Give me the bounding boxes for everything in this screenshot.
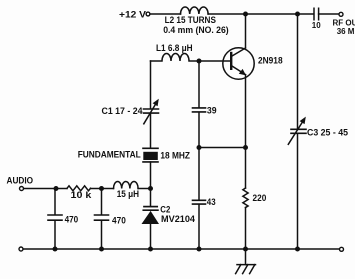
terminal bottom right xyxy=(340,247,344,251)
svg-text:39: 39 xyxy=(207,104,217,115)
svg-text:C3 25 - 45: C3 25 - 45 xyxy=(307,127,348,138)
svg-text:470: 470 xyxy=(112,215,126,226)
wire emitter down xyxy=(245,75,247,188)
wire L1 left down to C1 xyxy=(150,61,152,108)
node bottom R220/ground xyxy=(243,247,248,252)
node base/L1 junction xyxy=(197,59,202,64)
wire collector to top rail xyxy=(245,14,247,48)
wire top rail: +12V terminal to L2 xyxy=(150,13,180,15)
node bottom 470-1 xyxy=(53,247,58,252)
wire 15uH to crystal node xyxy=(138,188,150,190)
crystal Y1 FUNDAMENTAL 18 MHZ xyxy=(143,148,158,162)
svg-text:10: 10 xyxy=(312,21,321,30)
node bottom C2 xyxy=(148,247,153,252)
node link right xyxy=(243,145,248,150)
resistor 220 xyxy=(243,188,248,208)
svg-text:AUDIO: AUDIO xyxy=(7,174,34,185)
wire top rail: L2 to output cap xyxy=(208,13,313,15)
resistor 10 k xyxy=(67,186,91,191)
wire C3 branch from top rail xyxy=(297,14,299,128)
svg-text:470: 470 xyxy=(65,214,79,225)
capacitor C3 variable xyxy=(288,117,306,145)
varactor C2 MV2104 xyxy=(142,189,160,250)
inductor L2 xyxy=(181,7,209,14)
terminal +12V input xyxy=(146,12,150,16)
node collector/rail junction xyxy=(243,12,248,17)
svg-text:18 MHZ: 18 MHZ xyxy=(160,150,190,161)
node crystal/C2/15uH junction xyxy=(148,186,153,191)
node C3/rail junction xyxy=(295,12,300,17)
wire R10k to L 15uH xyxy=(91,188,114,190)
inductor L1 xyxy=(151,54,200,61)
wire base xyxy=(199,60,230,62)
inductor 15 uH xyxy=(114,182,139,189)
terminal RF OUT xyxy=(339,12,343,16)
node 470-2 junction xyxy=(99,186,104,191)
wire C1 to crystal xyxy=(150,114,152,148)
svg-text:220: 220 xyxy=(253,192,267,203)
node bottom C3 xyxy=(295,247,300,252)
svg-text:L1 6.8 μH: L1 6.8 μH xyxy=(156,42,193,53)
wire C39 to emitter link xyxy=(198,113,200,148)
wire link between branches xyxy=(199,147,246,149)
wire base node down to C 39 xyxy=(198,61,200,107)
wire R220 to bottom rail xyxy=(245,208,247,250)
capacitor 43 xyxy=(193,200,206,204)
node link left xyxy=(197,145,202,150)
node 470-1 junction xyxy=(54,186,59,191)
wire output cap to RF OUT terminal xyxy=(319,13,339,15)
svg-text:36 MHz: 36 MHz xyxy=(337,27,355,36)
capacitor 470 first xyxy=(48,190,62,249)
svg-text:0.4 mm (NO. 26): 0.4 mm (NO. 26) xyxy=(163,24,229,35)
wire audio terminal to R 10k xyxy=(24,188,67,190)
capacitor 470 second xyxy=(95,190,109,249)
terminal bottom left xyxy=(19,247,23,251)
capacitor C1 variable xyxy=(144,99,159,124)
capacitor 39 xyxy=(193,108,206,112)
svg-text:10 k: 10 k xyxy=(71,189,93,200)
capacitor 10 (output coupling) xyxy=(314,8,319,20)
svg-text:FUNDAMENTAL: FUNDAMENTAL xyxy=(78,149,141,160)
transistor Q1 2N918 xyxy=(223,48,254,79)
node bottom C43 xyxy=(197,247,202,252)
svg-text:2N918: 2N918 xyxy=(258,54,283,65)
svg-text:15 μH: 15 μH xyxy=(117,188,139,199)
wire C3 to bottom rail xyxy=(297,134,299,249)
wire bottom rail xyxy=(23,248,339,250)
wire crystal to audio node xyxy=(150,162,152,189)
terminal AUDIO input xyxy=(20,187,24,191)
svg-text:43: 43 xyxy=(207,196,216,207)
ground xyxy=(236,249,256,274)
svg-text:C1 17 - 24: C1 17 - 24 xyxy=(102,105,144,116)
wire link to C 43 xyxy=(198,148,200,200)
wire C43 to bottom rail xyxy=(198,205,200,249)
node bottom 470-2 xyxy=(99,247,104,252)
svg-text:MV2104: MV2104 xyxy=(161,213,196,224)
svg-text:+12 V: +12 V xyxy=(119,8,147,19)
